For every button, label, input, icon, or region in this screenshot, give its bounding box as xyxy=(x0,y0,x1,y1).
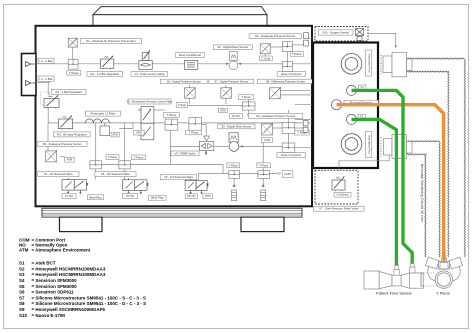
svg-text:S2 - Analogue Pressure Sensor: S2 - Analogue Pressure Sensor xyxy=(255,34,296,38)
green tube F2 xyxy=(352,119,397,265)
Y piece patient port circle xyxy=(435,271,452,288)
wire: S2 to T piece xyxy=(270,46,282,48)
label ATM V6 xyxy=(203,194,213,199)
wire: main air supply line xyxy=(36,63,342,65)
label relief setting xyxy=(334,193,351,198)
svg-text:V4 - 2/2 Solenoid Valve: V4 - 2/2 Solenoid Valve xyxy=(44,172,73,176)
svg-text:S10: S10 xyxy=(19,313,28,318)
expiration port adapter xyxy=(383,135,412,159)
T piece before PEEP xyxy=(189,118,202,131)
patient interface panel xyxy=(313,43,378,169)
wire: O2 supply line stub xyxy=(36,82,50,84)
svg-text:ATM: ATM xyxy=(205,194,210,198)
label blind plug V4 xyxy=(88,195,104,200)
wire: riser to T piece b xyxy=(124,123,126,161)
label F2 xyxy=(358,114,366,118)
svg-text:I.1 - 1 Bar: I.1 - 1 Bar xyxy=(39,77,52,81)
svg-text:= Sensirion SFM3000: = Sensirion SFM3000 xyxy=(32,278,78,283)
svg-text:Inspiration Port: Inspiration Port xyxy=(368,54,372,73)
wire: S7 lower stub xyxy=(225,98,227,104)
wire: filter vent to ATM xyxy=(119,123,133,129)
pressure sensor S7 xyxy=(221,87,232,98)
svg-text:Hose Connector: Hose Connector xyxy=(281,72,302,76)
wire: S8 second tap xyxy=(279,94,313,96)
label S1 xyxy=(81,39,142,44)
wire: T piece to restrictor xyxy=(292,44,303,46)
label hose connector xyxy=(277,72,306,77)
regulator R3 xyxy=(58,116,72,131)
label C seal under S2 xyxy=(259,56,272,61)
solenoid valve V4 xyxy=(62,178,88,194)
orange proximal pressure tube xyxy=(337,105,444,262)
pressure transmitter S1 xyxy=(68,38,77,47)
wire: T to muffler b xyxy=(262,178,264,186)
oxygen sensor symbol xyxy=(356,29,364,41)
label ATM at S9 xyxy=(65,157,75,162)
oxygen sensor S10 dashed enclosure xyxy=(315,27,368,42)
wire: PEEP to S5 xyxy=(214,145,229,147)
inspiration tube corner top edge xyxy=(449,58,465,59)
svg-text:R3 - 80 mbar Regulator: R3 - 80 mbar Regulator xyxy=(57,132,86,136)
T piece right mid xyxy=(282,122,295,133)
label S3 xyxy=(249,113,303,118)
svg-text:S2: S2 xyxy=(19,266,25,271)
T piece after V2 xyxy=(165,119,178,130)
filter bowl xyxy=(100,123,110,136)
left foot xyxy=(60,217,103,232)
svg-text:Neonatal Breathing Circuit 10: Neonatal Breathing Circuit 10 mm xyxy=(420,164,425,222)
flow sensor nipple left xyxy=(394,266,399,276)
svg-text:V7 - Over Pressure Relief Valv: V7 - Over Pressure Relief Valve xyxy=(319,207,359,211)
wire: S7 label stem xyxy=(225,85,227,88)
svg-text:T Piece: T Piece xyxy=(241,95,251,99)
svg-text:S8 - Differential Pressure Sen: S8 - Differential Pressure Sensor xyxy=(266,79,305,83)
wire: S4 body stem xyxy=(234,52,236,62)
port F2 connector xyxy=(347,114,357,124)
label COM right xyxy=(282,171,293,178)
T piece under S1 xyxy=(68,59,78,69)
label V6 xyxy=(160,175,197,180)
svg-text:ATM: ATM xyxy=(19,247,29,252)
green tube F1 xyxy=(352,90,413,265)
wire: T down to V5 xyxy=(124,169,126,180)
svg-text:ATM: ATM xyxy=(220,108,225,112)
Y piece body xyxy=(426,257,463,281)
svg-text:S4: S4 xyxy=(19,278,25,283)
pressure sensor S9 xyxy=(46,150,58,162)
svg-text:C Seal: C Seal xyxy=(261,56,270,60)
label V1 xyxy=(131,72,168,77)
label V4 NO xyxy=(62,193,76,198)
svg-text:= Atmosphere Environment: = Atmosphere Environment xyxy=(32,247,91,252)
over pressure relief valve dashed enclosure xyxy=(315,170,358,204)
svg-text:= Atek BCT: = Atek BCT xyxy=(32,261,56,266)
flow sensor S4 xyxy=(226,51,241,69)
svg-text:T Piece: T Piece xyxy=(189,131,199,135)
svg-text:V3 - PEEP Valve: V3 - PEEP Valve xyxy=(175,151,196,155)
pneumatic filter coils xyxy=(85,119,109,123)
muffler a xyxy=(232,184,237,201)
svg-text:S4 - Digital Flow Sensor: S4 - Digital Flow Sensor xyxy=(217,45,248,49)
svg-text:S7 - Digital Pressure Sensor: S7 - Digital Pressure Sensor xyxy=(214,79,248,83)
flow sensor nipple right xyxy=(410,264,415,273)
proximal pressure port connector xyxy=(332,100,342,110)
inspiration corrugated tube vertical xyxy=(448,59,466,257)
main device enclosure xyxy=(36,26,313,207)
dimension bracket xyxy=(421,273,424,286)
T piece lower b xyxy=(119,161,131,169)
svg-text:Y Piece: Y Piece xyxy=(436,291,450,296)
svg-text:T Piece: T Piece xyxy=(292,52,302,56)
svg-text:S5 - Digital Flow Sensor: S5 - Digital Flow Sensor xyxy=(221,124,251,128)
svg-text:S5: S5 xyxy=(19,284,25,289)
relief valve V7 symbol xyxy=(332,177,345,192)
pressure sensor S6 xyxy=(185,87,196,98)
wire: S3 COM line down to T piece xyxy=(262,142,264,170)
flow sensor S5 xyxy=(229,133,239,152)
label T piece sensor row xyxy=(238,95,254,99)
svg-text:V6..NO: V6..NO xyxy=(232,114,241,118)
svg-text:V6..NO: V6..NO xyxy=(187,194,196,198)
label T piece right b xyxy=(257,163,271,168)
svg-text:S10 - Oxygen Sensor: S10 - Oxygen Sensor xyxy=(322,30,349,34)
wire: S2 to C-seal xyxy=(264,54,266,56)
svg-text:= Honeywell HSCMRRN100MDAA3: = Honeywell HSCMRRN100MDAA3 xyxy=(32,272,106,277)
svg-text:Blind Plug: Blind Plug xyxy=(151,196,164,200)
wire: to proximal pressure port xyxy=(295,104,331,106)
svg-text:= Nuova E-17/M: = Nuova E-17/M xyxy=(32,313,66,318)
svg-text:0-120mbar: 0-120mbar xyxy=(336,194,348,197)
label S4 xyxy=(213,45,252,50)
wire: S8 to F1 port xyxy=(279,89,347,91)
svg-text:S6: S6 xyxy=(19,290,25,295)
inspiration port adapter xyxy=(383,52,412,77)
svg-text:S1 - Medical Air Pressure Tran: S1 - Medical Air Pressure Transmitter xyxy=(86,39,136,43)
pressure sensor S8 xyxy=(269,87,281,99)
svg-text:S9: S9 xyxy=(19,307,25,312)
svg-text:S3 - Analogue Pressure Sensor: S3 - Analogue Pressure Sensor xyxy=(256,114,295,118)
label T piece upper right xyxy=(290,52,303,57)
svg-text:V1 - Flow Control Valve: V1 - Flow Control Valve xyxy=(134,72,165,76)
label blind plug V5 xyxy=(149,195,167,200)
svg-text:COM: COM xyxy=(264,138,271,142)
inspiration corrugated tube horizontal xyxy=(407,58,449,72)
wire: R2 to blend line xyxy=(48,108,141,123)
svg-text:Blind Plug: Blind Plug xyxy=(89,195,102,199)
gas inlet connector block xyxy=(22,54,37,96)
label air inlet pressure xyxy=(38,58,54,63)
pressure sensor S3 xyxy=(261,123,273,135)
svg-text:= Honeywell HSCMRRN100MDAA3: = Honeywell HSCMRRN100MDAA3 xyxy=(32,266,106,271)
regulator R2 xyxy=(44,95,59,109)
wire: S9 to ATM xyxy=(60,156,65,158)
svg-text:ATM: ATM xyxy=(112,133,118,137)
label hose connector lower xyxy=(277,153,306,158)
wire: T piece riser through expiratory line xyxy=(169,130,171,164)
Y piece orange connector xyxy=(440,258,448,269)
svg-text:S9 - Analogue Pressure Sensor: S9 - Analogue Pressure Sensor xyxy=(43,142,82,146)
label V2 xyxy=(127,99,173,104)
svg-text:Hose Connector: Hose Connector xyxy=(281,153,301,157)
label S2 xyxy=(249,34,301,39)
T piece lower a xyxy=(90,161,102,169)
svg-text:T Piece: T Piece xyxy=(134,155,144,159)
svg-text:= Silicone Microstructure SM9: = Silicone Microstructure SM9541 - 100C … xyxy=(32,295,146,300)
wire: T piece to PEEP valve inlet xyxy=(198,124,207,136)
svg-text:Patient Flow Sensor: Patient Flow Sensor xyxy=(376,291,412,296)
wire: T manifold drain xyxy=(248,110,250,113)
wire: expiratory line left of PEEP xyxy=(170,145,199,147)
label pneumatic filter xyxy=(85,111,120,116)
svg-text:V6 - 2/2 Solenoid Valve: V6 - 2/2 Solenoid Valve xyxy=(164,175,193,179)
svg-text:COM: COM xyxy=(284,172,291,176)
label T piece lower a2 xyxy=(106,155,119,160)
wire: restrictor to O2 sensor box xyxy=(308,37,315,39)
label T piece after V2 xyxy=(163,113,179,118)
label S6 xyxy=(160,79,207,84)
wire: T to restrictor pair xyxy=(295,127,303,129)
T piece right bottom b xyxy=(258,171,270,179)
expiration tube corner top edge xyxy=(427,141,440,142)
svg-text:S1: S1 xyxy=(19,261,25,266)
label S5 xyxy=(218,124,256,129)
svg-text:R1 - 1.2 Bar Regulator: R1 - 1.2 Bar Regulator xyxy=(90,72,119,76)
svg-text:S6 - Digital Pressure Sensor: S6 - Digital Pressure Sensor xyxy=(167,79,201,83)
label expiration port (vertical) xyxy=(366,132,372,158)
hose connector T on air line xyxy=(282,62,292,72)
svg-text:F1: F1 xyxy=(361,85,365,89)
label COM under S3 xyxy=(261,138,272,143)
svg-text:I.1 - 1 Bar: I.1 - 1 Bar xyxy=(39,59,52,63)
label S10 xyxy=(319,30,354,35)
label ATM at filter xyxy=(111,132,119,137)
piezoelectric pressure control valve V2 xyxy=(138,107,154,140)
label R2 xyxy=(52,89,86,94)
label ATM at V2 xyxy=(134,130,145,135)
R2 dashed enclosure xyxy=(41,92,50,105)
label V5 NO xyxy=(123,193,138,198)
T piece right bottom a xyxy=(229,171,240,179)
muffler b xyxy=(261,184,266,201)
T piece sensor manifold xyxy=(242,102,255,110)
svg-text:V5 - 2/2 Solenoid Valve: V5 - 2/2 Solenoid Valve xyxy=(101,172,130,176)
label flow conditioner xyxy=(176,53,205,58)
svg-text:= Sensirion SFM3000: = Sensirion SFM3000 xyxy=(32,284,78,289)
wire: S3 to T piece xyxy=(273,127,283,129)
wire: tap to S9 xyxy=(45,123,48,157)
label R1 xyxy=(87,72,123,77)
svg-text:S8: S8 xyxy=(19,301,25,306)
wire: hose connector to expiration port xyxy=(295,147,341,149)
wire: drop to R2 xyxy=(47,83,49,96)
label S9 xyxy=(38,141,87,146)
wire: sensor manifold to T xyxy=(183,104,242,106)
flow control valve V1 xyxy=(139,51,152,70)
svg-text:= Honeywell SSCMRRN100MGAF5: = Honeywell SSCMRRN100MGAF5 xyxy=(32,307,106,312)
label S7 xyxy=(209,79,254,84)
wire: blend line to panel xyxy=(154,122,313,124)
svg-text:= Silicone Microstructure SM9: = Silicone Microstructure SM9541 - 100C … xyxy=(32,301,147,306)
wire: relief valve tap to expiration adapter xyxy=(339,153,389,171)
port F1 connector xyxy=(347,85,357,95)
right foot xyxy=(241,217,284,232)
label R3 xyxy=(54,132,91,137)
expiration corrugated tube vertical xyxy=(425,142,441,258)
wire: S5 outlet to hose connector xyxy=(238,145,282,147)
label T piece before PEEP xyxy=(186,130,202,135)
svg-text:Pneumatic I.1 Filter: Pneumatic I.1 Filter xyxy=(90,112,115,116)
pressure sensor S2 xyxy=(260,43,271,54)
inspiration port connector xyxy=(341,54,362,75)
wire: V6 supply stub xyxy=(197,174,199,181)
label V4 xyxy=(38,172,79,177)
svg-text:Expiration Port: Expiration Port xyxy=(368,135,372,154)
svg-text:C Seal: C Seal xyxy=(178,103,186,107)
patient flow sensor body xyxy=(364,271,423,289)
Y piece dashed leader lines xyxy=(414,273,437,286)
label V6 NO2 xyxy=(185,194,197,199)
wire: lower manifold xyxy=(90,165,223,174)
wire: T down to V4 xyxy=(95,169,97,180)
wire: to F2 port xyxy=(295,118,347,120)
wire: S6 lower stub xyxy=(189,98,191,104)
T piece upper right xyxy=(282,42,292,52)
svg-text:T Piece: T Piece xyxy=(259,163,269,167)
label S8 xyxy=(257,79,313,84)
svg-text:ATM: ATM xyxy=(136,131,142,135)
base drawer xyxy=(42,208,302,217)
regulator R1 xyxy=(100,56,113,70)
device lid (3D box top) xyxy=(93,7,267,26)
solenoid valve V6 xyxy=(185,179,208,195)
label T piece xyxy=(67,71,81,76)
svg-text:T Piece: T Piece xyxy=(229,163,239,167)
wire: riser to T piece a xyxy=(95,123,97,161)
air inlet port triangle xyxy=(26,62,36,67)
svg-text:ATM: ATM xyxy=(67,158,73,162)
label T piece right a xyxy=(227,163,240,168)
svg-text:R2 - 1 Bar Regulator: R2 - 1 Bar Regulator xyxy=(56,90,83,94)
label V6 NO tap xyxy=(230,113,243,118)
label C seal mid xyxy=(176,103,187,108)
wire: upper T to hose connector xyxy=(286,52,288,62)
svg-text:V4..NO: V4..NO xyxy=(65,194,74,198)
wire: T stem up xyxy=(248,96,250,102)
solenoid valve V5 xyxy=(123,178,149,194)
wire: T down to hose connector xyxy=(288,133,290,143)
label F1 xyxy=(359,85,367,89)
svg-text:V5..NO: V5..NO xyxy=(126,194,135,198)
label V5 xyxy=(95,172,136,177)
svg-text:S7: S7 xyxy=(19,295,25,300)
wire: T to muffler a xyxy=(233,178,235,186)
svg-text:= Sensirion SDP611: = Sensirion SDP611 xyxy=(32,290,75,295)
wire: O2 sensor to inspiration adapter xyxy=(368,33,396,47)
label proximal pressure xyxy=(344,100,378,105)
svg-text:T Piece: T Piece xyxy=(108,155,118,159)
label V3 xyxy=(171,151,199,156)
restrictor pair right mid xyxy=(303,121,308,133)
hose connector lower xyxy=(282,143,295,153)
label V7 xyxy=(314,206,365,211)
label O2 inlet pressure xyxy=(38,76,54,81)
wire: valve manifold line to COM xyxy=(198,173,278,175)
expiration corrugated tube horizontal xyxy=(405,141,427,155)
label T piece lower a xyxy=(132,155,146,160)
label inspiration port (vertical) xyxy=(366,50,372,76)
O2 inlet port triangle xyxy=(26,81,36,86)
wire: S6 label stem xyxy=(189,85,191,88)
svg-text:T Piece: T Piece xyxy=(69,71,79,75)
wire: T stem up xyxy=(288,110,290,122)
svg-text:S3: S3 xyxy=(19,272,25,277)
flow conditioner body xyxy=(184,60,197,69)
svg-text:T Piece: T Piece xyxy=(166,113,176,117)
PEEP valve V3 xyxy=(199,136,213,155)
wire: S1 to T piece xyxy=(72,47,74,59)
svg-text:Flow Conditioner: Flow Conditioner xyxy=(179,53,202,57)
label ATM sensor row xyxy=(219,108,228,112)
label T piece right mid xyxy=(295,130,309,135)
restrictor pair top right xyxy=(304,33,309,46)
expiration port connector xyxy=(341,134,362,155)
svg-text:V2 - Piezoelectric Pressure Co: V2 - Piezoelectric Pressure Control Valv… xyxy=(127,100,173,103)
